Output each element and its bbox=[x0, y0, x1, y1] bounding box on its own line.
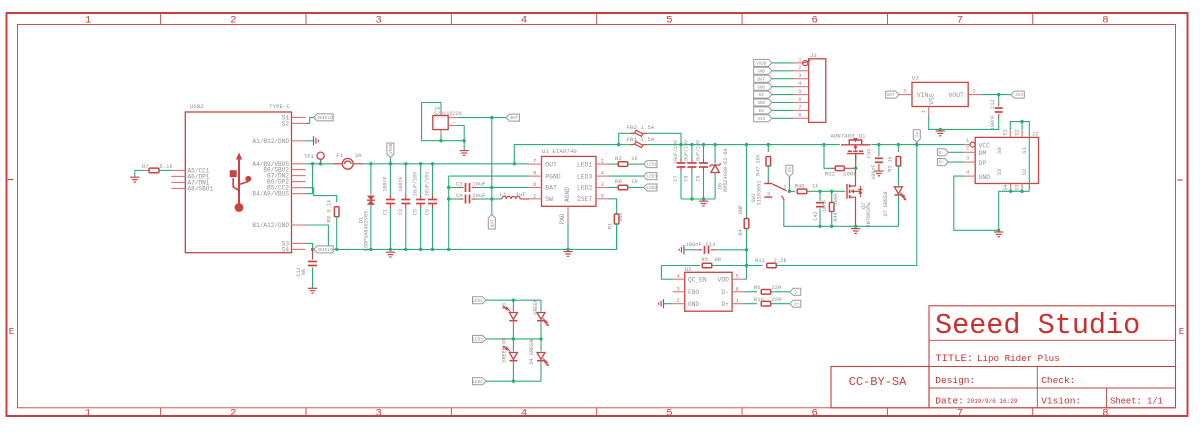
svg-text:6: 6 bbox=[533, 181, 537, 188]
J2 VCC pin with circle bbox=[964, 144, 975, 146]
svg-text:GND: GND bbox=[688, 301, 699, 308]
flag D- at U2 bbox=[790, 288, 801, 295]
svg-text:BAT: BAT bbox=[757, 78, 765, 82]
svg-text:Seeed Studio: Seeed Studio bbox=[935, 309, 1140, 342]
flag EN above switch bbox=[786, 165, 793, 177]
svg-text:C2: C2 bbox=[398, 209, 404, 215]
flag LED3 left bbox=[473, 335, 487, 342]
svg-text:LED3: LED3 bbox=[577, 173, 593, 180]
J2 top shield pins S1 S2 bbox=[1009, 130, 1011, 138]
svg-text:AON7403: AON7403 bbox=[830, 132, 855, 139]
svg-text:L1: L1 bbox=[500, 191, 507, 198]
svg-text:R46: R46 bbox=[833, 212, 839, 221]
svg-text:10nF: 10nF bbox=[822, 200, 828, 212]
svg-text:C5: C5 bbox=[413, 209, 419, 215]
svg-text:D7 GREEN: D7 GREEN bbox=[883, 192, 889, 217]
wire D+ to DP bbox=[948, 161, 964, 163]
svg-text:7: 7 bbox=[957, 15, 963, 27]
wire CC1 to R7 bbox=[135, 169, 145, 171]
wire BAT to VIN bbox=[899, 94, 912, 96]
svg-text:OUT: OUT bbox=[545, 161, 557, 168]
svg-text:S1: S1 bbox=[1003, 129, 1009, 135]
capacitor C4 10uF bbox=[449, 198, 459, 200]
svg-text:PAD: PAD bbox=[559, 213, 566, 224]
IC U3 regulator bbox=[912, 82, 968, 106]
TVS diode D1 ESDPSA0402V05 bbox=[370, 164, 372, 195]
svg-text:31103081: 31103081 bbox=[756, 181, 762, 206]
LED D2 GREEN bbox=[540, 300, 542, 311]
svg-text:Vision:: Vision: bbox=[1041, 395, 1081, 406]
resistor R2 1k on LED1 bbox=[609, 163, 619, 165]
svg-text:VCC: VCC bbox=[979, 142, 991, 149]
wire VDD to R4 column bbox=[744, 278, 747, 280]
svg-text:LED2: LED2 bbox=[473, 381, 484, 385]
resistor R6 22R on D- bbox=[744, 291, 757, 293]
svg-text:2: 2 bbox=[601, 158, 605, 165]
capacitor C42 10nF bbox=[819, 191, 821, 201]
svg-text:R4: R4 bbox=[738, 229, 744, 235]
flag 3V3 bbox=[1011, 91, 1025, 98]
svg-text:5: 5 bbox=[666, 407, 672, 419]
svg-text:SHIELD: SHIELD bbox=[318, 249, 334, 253]
svg-text:56k: 56k bbox=[618, 212, 624, 221]
junction TP1 bbox=[319, 162, 322, 165]
ground below Q2 rail bbox=[851, 228, 860, 230]
flag 5V at J3 bbox=[754, 91, 772, 98]
wire VSS to ground bbox=[928, 107, 930, 117]
svg-text:D4 GREEN: D4 GREEN bbox=[529, 340, 535, 365]
svg-text:6: 6 bbox=[812, 407, 818, 419]
resistor R11 2.2k bbox=[747, 265, 763, 267]
wire GND rail bbox=[313, 223, 617, 249]
svg-text:2: 2 bbox=[973, 87, 976, 94]
svg-text:4: 4 bbox=[521, 407, 527, 419]
CC-BY-SA box bbox=[831, 367, 929, 408]
svg-text:R6: R6 bbox=[754, 284, 761, 291]
svg-text:6: 6 bbox=[798, 96, 801, 103]
svg-text:D3: D3 bbox=[502, 303, 508, 309]
svg-text:VUSB: VUSB bbox=[390, 143, 394, 154]
svg-text:Check:: Check: bbox=[1041, 375, 1075, 386]
svg-text:C13: C13 bbox=[706, 241, 716, 248]
svg-text:USB2: USB2 bbox=[190, 103, 204, 110]
svg-text:C12: C12 bbox=[990, 99, 996, 108]
svg-text:4: 4 bbox=[601, 170, 605, 177]
svg-text:3: 3 bbox=[376, 407, 382, 419]
svg-text:R3 1k: R3 1k bbox=[888, 156, 894, 172]
svg-text:1k: 1k bbox=[812, 183, 819, 190]
svg-text:S4: S4 bbox=[282, 246, 290, 253]
svg-text:S2: S2 bbox=[1014, 129, 1020, 135]
svg-text:Lipo Rider Plus: Lipo Rider Plus bbox=[977, 353, 1060, 364]
svg-text:LED3: LED3 bbox=[473, 339, 484, 343]
IC U1 ETA9740 bbox=[542, 156, 597, 206]
svg-text:2: 2 bbox=[677, 297, 680, 304]
svg-text:S2: S2 bbox=[1021, 169, 1028, 176]
wire LED3 row bbox=[486, 338, 541, 340]
J3 pin1 polarity circle bbox=[803, 61, 808, 66]
svg-text:10uF: 10uF bbox=[472, 181, 485, 188]
svg-text:3: 3 bbox=[767, 191, 770, 197]
flag D+ at U2 bbox=[790, 300, 801, 307]
resistor R40 1k bbox=[789, 190, 795, 192]
svg-text:GND: GND bbox=[757, 86, 765, 90]
wire VBUS rail right bbox=[363, 163, 529, 165]
svg-text:EN: EN bbox=[789, 166, 793, 172]
svg-text:C6: C6 bbox=[425, 209, 431, 215]
svg-text:S1: S1 bbox=[1021, 147, 1028, 154]
flag LED2 left bbox=[473, 378, 487, 385]
svg-text:GND: GND bbox=[979, 174, 991, 181]
wire B4/A9/VBUS up to rail bbox=[306, 164, 313, 194]
svg-text:S3: S3 bbox=[1014, 184, 1020, 190]
resistor R4 DNP bbox=[746, 145, 748, 219]
svg-text:J2: J2 bbox=[1032, 130, 1039, 137]
svg-text:BAT: BAT bbox=[545, 185, 557, 192]
flag LED1 left bbox=[473, 297, 487, 304]
flag EN at J3 bbox=[754, 107, 772, 114]
svg-text:VIN: VIN bbox=[917, 92, 929, 99]
svg-text:1k: 1k bbox=[631, 178, 638, 185]
svg-text:LED2: LED2 bbox=[647, 187, 658, 191]
wire LED2 row bbox=[486, 380, 541, 382]
svg-text:ESDPSA0402V05: ESDPSA0402V05 bbox=[363, 211, 369, 251]
flag BAT below C4 bbox=[491, 199, 493, 215]
svg-text:SHIELD: SHIELD bbox=[318, 117, 334, 121]
svg-text:100nF: 100nF bbox=[990, 115, 996, 131]
svg-text:C43: C43 bbox=[867, 149, 873, 158]
svg-text:100k: 100k bbox=[833, 193, 839, 205]
wire J4 loop left bbox=[422, 103, 465, 141]
ground below J2 bbox=[994, 231, 1003, 233]
svg-text:FB2 1.5A: FB2 1.5A bbox=[627, 124, 655, 131]
flag SHIELD top bbox=[314, 114, 334, 121]
wire S1 S2 to shield flag bbox=[306, 117, 314, 123]
wire BAT row to pin 6 bbox=[492, 187, 529, 189]
svg-text:A1/B12/GND: A1/B12/GND bbox=[252, 138, 289, 145]
capacitor C7 10uF/10V bbox=[680, 145, 682, 159]
flag BAT at J3 bbox=[754, 75, 772, 82]
svg-text:CC-BY-SA: CC-BY-SA bbox=[849, 375, 907, 389]
svg-text:B1/A12/GND: B1/A12/GND bbox=[252, 222, 289, 229]
flag GND at J3 bbox=[754, 99, 772, 106]
svg-text:10uF/10V: 10uF/10V bbox=[413, 171, 419, 197]
ground below U3 bbox=[936, 130, 945, 132]
ground at A1/B12/GND (rotated) bbox=[313, 136, 315, 145]
svg-text:QC_EN: QC_EN bbox=[688, 276, 707, 283]
svg-text:1: 1 bbox=[533, 192, 537, 199]
svg-text:22R: 22R bbox=[772, 284, 783, 291]
flag 3V3 at J3 bbox=[754, 115, 772, 122]
svg-text:ISET: ISET bbox=[577, 196, 593, 203]
wire VOUT to 3V3 bbox=[968, 94, 981, 96]
svg-text:C3: C3 bbox=[456, 181, 463, 188]
svg-text:100nF: 100nF bbox=[382, 176, 388, 192]
flag GND at J3 bbox=[754, 83, 772, 90]
svg-text:R47 10k: R47 10k bbox=[756, 154, 762, 176]
flag GND at J3 bbox=[754, 67, 772, 74]
IC U2 bbox=[685, 272, 732, 311]
svg-text:LED1: LED1 bbox=[647, 164, 658, 168]
svg-text:3A: 3A bbox=[355, 152, 362, 159]
svg-text:TITLE:: TITLE: bbox=[935, 353, 973, 365]
svg-text:LED3: LED3 bbox=[647, 176, 658, 180]
LED D3 bbox=[512, 300, 514, 311]
ground below C1 bbox=[386, 251, 395, 253]
svg-text:3: 3 bbox=[601, 181, 605, 188]
svg-text:3: 3 bbox=[966, 154, 969, 161]
svg-text:GREEN: GREEN bbox=[533, 299, 539, 315]
resistor R7 5.1k bbox=[145, 169, 150, 171]
resistor R3 1k bbox=[897, 145, 899, 152]
svg-text:R8 5.1k: R8 5.1k bbox=[326, 199, 333, 223]
wire C7-C9 bottom rail bbox=[681, 198, 715, 200]
wire A1/B12/GND to ground bbox=[306, 140, 314, 142]
svg-text:D+: D+ bbox=[939, 162, 945, 166]
capacitor C2 100nF bbox=[405, 164, 407, 195]
wire B1/A12/GND down to shield net bbox=[306, 225, 329, 246]
flag D- at J2 bbox=[937, 149, 948, 156]
svg-text:2.2k: 2.2k bbox=[774, 257, 788, 264]
svg-text:GREEN D5: GREEN D5 bbox=[502, 338, 508, 363]
svg-text:5: 5 bbox=[736, 273, 739, 280]
svg-text:R11: R11 bbox=[755, 257, 766, 264]
LED D5 GREEN bbox=[512, 339, 514, 352]
svg-text:VSS: VSS bbox=[928, 93, 935, 104]
svg-text:C8: C8 bbox=[684, 175, 690, 181]
capacitor C6 10uF/10V bbox=[432, 164, 434, 195]
svg-text:B4/A9/VBUS: B4/A9/VBUS bbox=[252, 191, 289, 198]
svg-text:R1: R1 bbox=[608, 223, 614, 229]
wire J4 plus to BAT flag bbox=[448, 117, 458, 119]
ground below C7-C9 bbox=[699, 200, 708, 202]
wire J4 minus pin bbox=[448, 125, 456, 127]
svg-text:D-: D- bbox=[721, 289, 728, 296]
flag 5V above rail bbox=[913, 130, 920, 143]
svg-text:2: 2 bbox=[230, 15, 236, 27]
wire VBUS rail left bbox=[306, 163, 333, 165]
LED D4 GREEN bbox=[540, 339, 542, 352]
svg-text:VDD: VDD bbox=[718, 276, 729, 283]
svg-text:LED2: LED2 bbox=[577, 185, 593, 192]
svg-text:3: 3 bbox=[376, 15, 382, 27]
svg-text:FB1 1.5A: FB1 1.5A bbox=[627, 136, 655, 143]
svg-text:DNP: DNP bbox=[738, 205, 744, 214]
fuse F1 3A bbox=[333, 163, 342, 165]
capacitor C9 10uF/10V bbox=[703, 145, 705, 159]
svg-text:VOUT: VOUT bbox=[949, 92, 965, 99]
svg-text:C1: C1 bbox=[382, 209, 388, 215]
resistor R47 10k bbox=[767, 145, 769, 152]
svg-text:2: 2 bbox=[230, 407, 236, 419]
svg-text:TP1: TP1 bbox=[304, 153, 315, 160]
svg-text:S2B110226: S2B110226 bbox=[434, 111, 462, 117]
svg-text:DM: DM bbox=[979, 150, 987, 157]
svg-text:3V3: 3V3 bbox=[1015, 94, 1023, 98]
ground at R7 bbox=[134, 170, 136, 177]
svg-text:6: 6 bbox=[736, 285, 739, 292]
resistor R8 5.1k on CC2 bbox=[306, 188, 337, 203]
svg-text:C4: C4 bbox=[456, 192, 463, 199]
row divider dash left bbox=[8, 179, 13, 181]
svg-text:10uF: 10uF bbox=[472, 192, 485, 199]
svg-text:8: 8 bbox=[798, 112, 801, 119]
svg-text:U3: U3 bbox=[912, 75, 919, 82]
svg-text:1: 1 bbox=[85, 15, 91, 27]
capacitor C3 10uF bbox=[449, 187, 459, 189]
svg-text:1: 1 bbox=[767, 177, 770, 183]
svg-text:R5: R5 bbox=[701, 256, 708, 263]
svg-text:U2: U2 bbox=[685, 266, 692, 273]
svg-text:Sheet: 1/1: Sheet: 1/1 bbox=[1110, 396, 1163, 406]
wire D- to DM bbox=[948, 151, 964, 153]
svg-text:BAT: BAT bbox=[510, 117, 518, 121]
flag LED1 bbox=[644, 161, 658, 168]
svg-text:1uF: 1uF bbox=[516, 191, 527, 198]
flag BAT at U3 bbox=[886, 91, 900, 98]
svg-text:GND: GND bbox=[757, 102, 765, 106]
wire S3 down bbox=[306, 243, 313, 249]
svg-text:S4: S4 bbox=[1003, 184, 1009, 190]
wire LED3 pin to flag bbox=[609, 175, 644, 177]
svg-text:5V: 5V bbox=[759, 94, 765, 98]
svg-text:D+: D+ bbox=[721, 301, 729, 308]
connector J2 bbox=[975, 137, 1038, 183]
svg-text:BAT: BAT bbox=[491, 219, 495, 227]
wire OUT pin to rail riser bbox=[514, 145, 618, 164]
wire LED1 row bbox=[486, 299, 541, 301]
column divider ticks bbox=[160, 13, 162, 25]
flag BAT at J4 bbox=[506, 114, 520, 121]
svg-text:MMSZ4689-E3-08: MMSZ4689-E3-08 bbox=[723, 148, 729, 192]
wire BAT net vertical bbox=[491, 118, 493, 199]
svg-text:F1: F1 bbox=[336, 152, 343, 159]
wire GND pin 4 to ground bbox=[964, 175, 975, 177]
USB icon bbox=[230, 153, 252, 212]
svg-text:100nF: 100nF bbox=[685, 241, 702, 248]
svg-text:TYPE-C: TYPE-C bbox=[269, 103, 290, 110]
svg-text:Q1: Q1 bbox=[859, 132, 866, 139]
svg-text:3: 3 bbox=[798, 72, 801, 79]
svg-text:2019/9/6 16:29: 2019/9/6 16:29 bbox=[967, 398, 1018, 405]
wire J2 bottom shield to ground bbox=[999, 191, 1030, 230]
svg-text:8: 8 bbox=[533, 170, 537, 177]
USB2 right-side pins bbox=[252, 114, 305, 253]
flag VUSB above C1 bbox=[389, 158, 391, 164]
svg-text:22R: 22R bbox=[772, 296, 783, 303]
svg-text:5: 5 bbox=[666, 15, 672, 27]
flag VUSB at J3 bbox=[754, 59, 772, 66]
capacitor C1 100nF bbox=[389, 164, 391, 195]
svg-text:1k: 1k bbox=[631, 155, 638, 162]
svg-text:R40: R40 bbox=[795, 183, 805, 190]
capacitor C13 100nF bbox=[683, 245, 685, 254]
svg-text:S0: S0 bbox=[996, 147, 1003, 154]
resistor R5 0R bbox=[661, 265, 700, 267]
svg-text:D-: D- bbox=[794, 291, 799, 295]
capacitor C5 10uF/10V bbox=[420, 164, 422, 195]
resistor R32 100k bbox=[824, 145, 831, 169]
wire 5V rail bbox=[647, 144, 840, 146]
svg-text:EN: EN bbox=[759, 110, 765, 114]
wire EN to switch node bbox=[788, 177, 790, 192]
svg-text:R10: R10 bbox=[754, 296, 764, 303]
svg-text:4: 4 bbox=[521, 15, 527, 27]
svg-text:10uF/10V: 10uF/10V bbox=[684, 140, 690, 164]
svg-text:DP: DP bbox=[979, 160, 987, 167]
svg-text:6: 6 bbox=[812, 15, 818, 27]
flag LED2 bbox=[644, 184, 658, 191]
resistor R10 22R on D+ bbox=[744, 303, 757, 305]
svg-text:5: 5 bbox=[798, 88, 801, 95]
svg-text:8: 8 bbox=[1102, 407, 1108, 419]
svg-text:2: 2 bbox=[784, 185, 787, 191]
svg-text:2N7002PW: 2N7002PW bbox=[866, 202, 872, 228]
junction B4 vbus bbox=[311, 162, 314, 165]
inductor L1 1uF bbox=[492, 198, 502, 200]
wire J2 top shield bbox=[1010, 122, 1029, 192]
transistor Q2 2N7002PW bbox=[847, 168, 863, 226]
svg-text:5: 5 bbox=[601, 192, 605, 199]
svg-text:1: 1 bbox=[921, 110, 927, 113]
svg-text:S3: S3 bbox=[996, 169, 1003, 176]
J2 bottom shield pins S4 S3 bbox=[1010, 184, 1012, 192]
wire Q2 bottom rail bbox=[784, 200, 899, 226]
svg-text:E: E bbox=[9, 327, 14, 337]
svg-text:LED1: LED1 bbox=[577, 161, 593, 168]
svg-text:R7: R7 bbox=[142, 163, 149, 170]
svg-text:7: 7 bbox=[798, 104, 801, 111]
wire J4 bottom pin bbox=[440, 130, 442, 135]
svg-text:R9: R9 bbox=[615, 178, 622, 185]
flag D+ at J2 bbox=[937, 159, 948, 166]
wire QC_EN loop bbox=[661, 266, 672, 280]
svg-text:SW: SW bbox=[545, 196, 553, 203]
svg-text:100nF: 100nF bbox=[871, 164, 877, 180]
svg-text:0R: 0R bbox=[715, 256, 722, 263]
ground below U1 PAD bbox=[563, 251, 572, 253]
svg-text:R32: R32 bbox=[825, 170, 836, 177]
svg-text:0R: 0R bbox=[301, 269, 307, 275]
svg-text:U1 ETA9740: U1 ETA9740 bbox=[542, 148, 577, 155]
ground at U2 GND pin (rotated) bbox=[664, 303, 673, 305]
svg-text:C42: C42 bbox=[813, 211, 819, 220]
svg-text:FBO: FBO bbox=[688, 289, 699, 296]
svg-text:D+: D+ bbox=[794, 303, 800, 307]
ground below C43 bbox=[874, 170, 883, 172]
svg-text:1: 1 bbox=[85, 407, 91, 419]
svg-text:A8/SBU1: A8/SBU1 bbox=[188, 185, 214, 192]
svg-text:PGND: PGND bbox=[545, 173, 561, 180]
svg-text:2: 2 bbox=[798, 64, 801, 71]
svg-text:VUSB: VUSB bbox=[756, 63, 767, 67]
USB2 left-side pins bbox=[171, 167, 213, 192]
svg-text:Date:: Date: bbox=[935, 395, 964, 406]
svg-text:10uF/10V: 10uF/10V bbox=[673, 140, 679, 164]
svg-text:C7: C7 bbox=[673, 175, 679, 181]
svg-text:C9: C9 bbox=[695, 175, 701, 181]
resistor R1 56k on ISET bbox=[609, 199, 617, 215]
row divider dash right bbox=[1178, 179, 1183, 181]
svg-text:BAT: BAT bbox=[887, 94, 895, 98]
switch SW1 31103081 bbox=[764, 183, 772, 185]
capacitor C43 100nF bbox=[878, 145, 880, 157]
svg-text:D-: D- bbox=[939, 152, 944, 156]
svg-text:E: E bbox=[1179, 327, 1184, 337]
svg-text:10uF/10V: 10uF/10V bbox=[425, 171, 431, 197]
ferrite bead FB1 1.5A bbox=[619, 144, 631, 146]
ground below J4 bbox=[463, 141, 465, 151]
